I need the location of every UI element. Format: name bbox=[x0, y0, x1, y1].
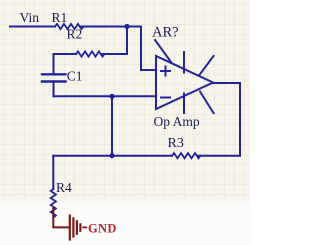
svg-text:R3: R3 bbox=[168, 136, 184, 151]
node junction feedback bbox=[109, 153, 114, 158]
ground GND power port bars bbox=[69, 216, 71, 240]
svg-text:R1: R1 bbox=[52, 10, 68, 25]
ground pin tick bbox=[83, 226, 86, 228]
wire R2 left segment bbox=[54, 53, 77, 55]
wire output vertical bbox=[239, 83, 241, 156]
node junction minus line bbox=[109, 94, 114, 99]
wire to op-amp + input bbox=[141, 27, 156, 71]
wire to R4 bbox=[52, 156, 54, 189]
op-amp bottom power pin bbox=[183, 94, 185, 114]
op-amp top power pin bbox=[183, 52, 185, 73]
wire R1 to corner bbox=[81, 26, 141, 28]
op-amp upper-left diagonal pin bbox=[155, 40, 171, 62]
op-amp upper-right diagonal pin bbox=[199, 56, 214, 76]
wire feedback left segment bbox=[53, 155, 172, 157]
wire Vin input bbox=[10, 26, 55, 28]
op-amp plus sign bbox=[161, 67, 170, 76]
svg-text:R2: R2 bbox=[67, 27, 83, 42]
wire C1 to op-amp - input bbox=[54, 95, 157, 97]
op-amp AR? triangle bbox=[156, 56, 213, 109]
wire R2 right segment bbox=[101, 53, 127, 55]
resistor R2 bbox=[76, 51, 105, 56]
capacitor C1 bottom lead bbox=[53, 83, 55, 97]
svg-text:Op Amp: Op Amp bbox=[154, 114, 200, 129]
capacitor C1 top lead bbox=[53, 54, 55, 73]
resistor R1 bbox=[55, 24, 84, 29]
svg-text:C1: C1 bbox=[67, 69, 83, 84]
svg-text:AR?: AR? bbox=[152, 24, 179, 40]
svg-text:Vin: Vin bbox=[20, 10, 40, 25]
wire op-amp output bbox=[213, 82, 240, 84]
resistor R3 bbox=[172, 153, 201, 158]
resistor R4 bbox=[51, 189, 56, 218]
wire feedback right segment bbox=[198, 155, 240, 157]
capacitor C1 plates bbox=[42, 73, 66, 75]
wire junction down to R2 bbox=[126, 27, 128, 55]
svg-text:GND: GND bbox=[88, 221, 117, 235]
op-amp minus sign bbox=[161, 97, 170, 99]
op-amp lower-right diagonal pin bbox=[200, 92, 214, 114]
node junction R1/R2 bbox=[124, 24, 129, 29]
svg-text:R4: R4 bbox=[56, 180, 72, 195]
wire R4 to ground bbox=[53, 207, 68, 227]
wire junction down to feedback bbox=[111, 96, 113, 155]
